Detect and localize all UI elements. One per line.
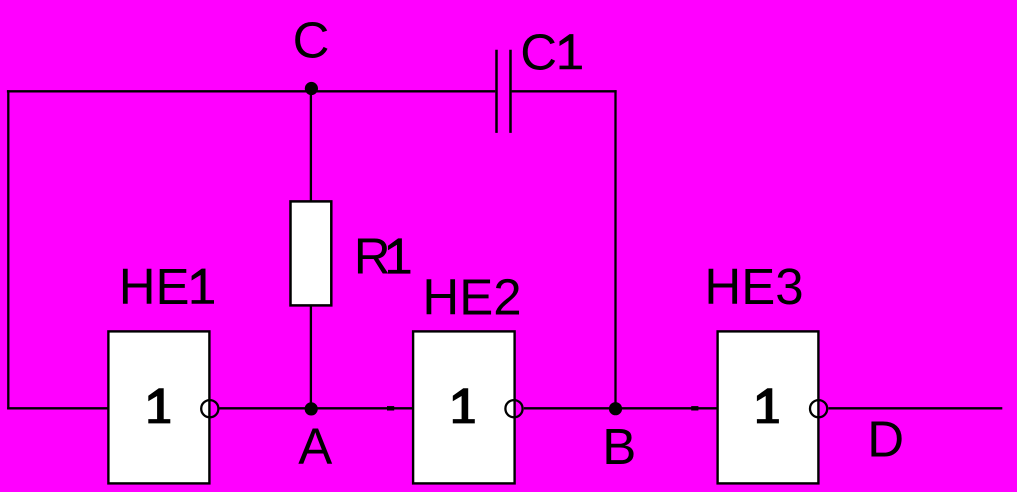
label C1 bbox=[520, 23, 582, 80]
gate HE3 "1" glyph bbox=[757, 388, 779, 423]
wire: left vertical feedback bbox=[7, 90, 9, 409]
inversion circle HE1 bbox=[201, 400, 218, 417]
wire: right vertical from capacitor corner down to node B bbox=[614, 90, 616, 408]
svg-text:C: C bbox=[293, 12, 330, 69]
svg-text:HE: HE bbox=[119, 258, 190, 315]
wire: input stub blob before HE2 bbox=[387, 406, 394, 410]
wire: bottom-left horizontal to HE1 input bbox=[7, 407, 109, 409]
wire: HE3 output to D bbox=[828, 407, 1002, 409]
gate HE1 "1" glyph bbox=[148, 388, 170, 423]
gate HE3 (NOT) bbox=[718, 331, 819, 483]
inversion circle HE2 bbox=[505, 400, 522, 417]
label HE1 bbox=[119, 258, 214, 315]
wire: top horizontal from C1 right plate to right corner bbox=[512, 90, 617, 92]
gate HE1 (NOT) bbox=[108, 331, 209, 483]
wire: HE2 output to HE3 input through node B bbox=[524, 407, 718, 409]
gate HE2 "1" glyph bbox=[453, 388, 475, 423]
node A bbox=[305, 402, 318, 415]
svg-text:C: C bbox=[520, 23, 557, 80]
inversion circle HE3 bbox=[810, 400, 827, 417]
gate HE2 (NOT) bbox=[413, 331, 514, 483]
capacitor C1 bbox=[497, 50, 511, 133]
wire: HE1 output to HE2 input through node A bbox=[219, 407, 413, 409]
svg-text:D: D bbox=[867, 410, 904, 467]
label R1 bbox=[354, 228, 411, 285]
wire: input stub blob before HE3 bbox=[691, 406, 698, 410]
node B bbox=[609, 402, 622, 415]
wire: top horizontal from left corner to C1 left plate bbox=[7, 90, 495, 92]
wire: vertical from node C down to R1 top bbox=[310, 91, 312, 202]
svg-text:HE3: HE3 bbox=[704, 258, 803, 315]
svg-text:R: R bbox=[354, 228, 391, 285]
node C bbox=[305, 82, 318, 95]
wire: vertical from R1 bottom to node A bbox=[310, 305, 312, 408]
svg-text:A: A bbox=[298, 418, 332, 475]
svg-text:B: B bbox=[602, 418, 636, 475]
svg-text:HE2: HE2 bbox=[422, 269, 521, 326]
resistor R1 bbox=[291, 201, 332, 305]
